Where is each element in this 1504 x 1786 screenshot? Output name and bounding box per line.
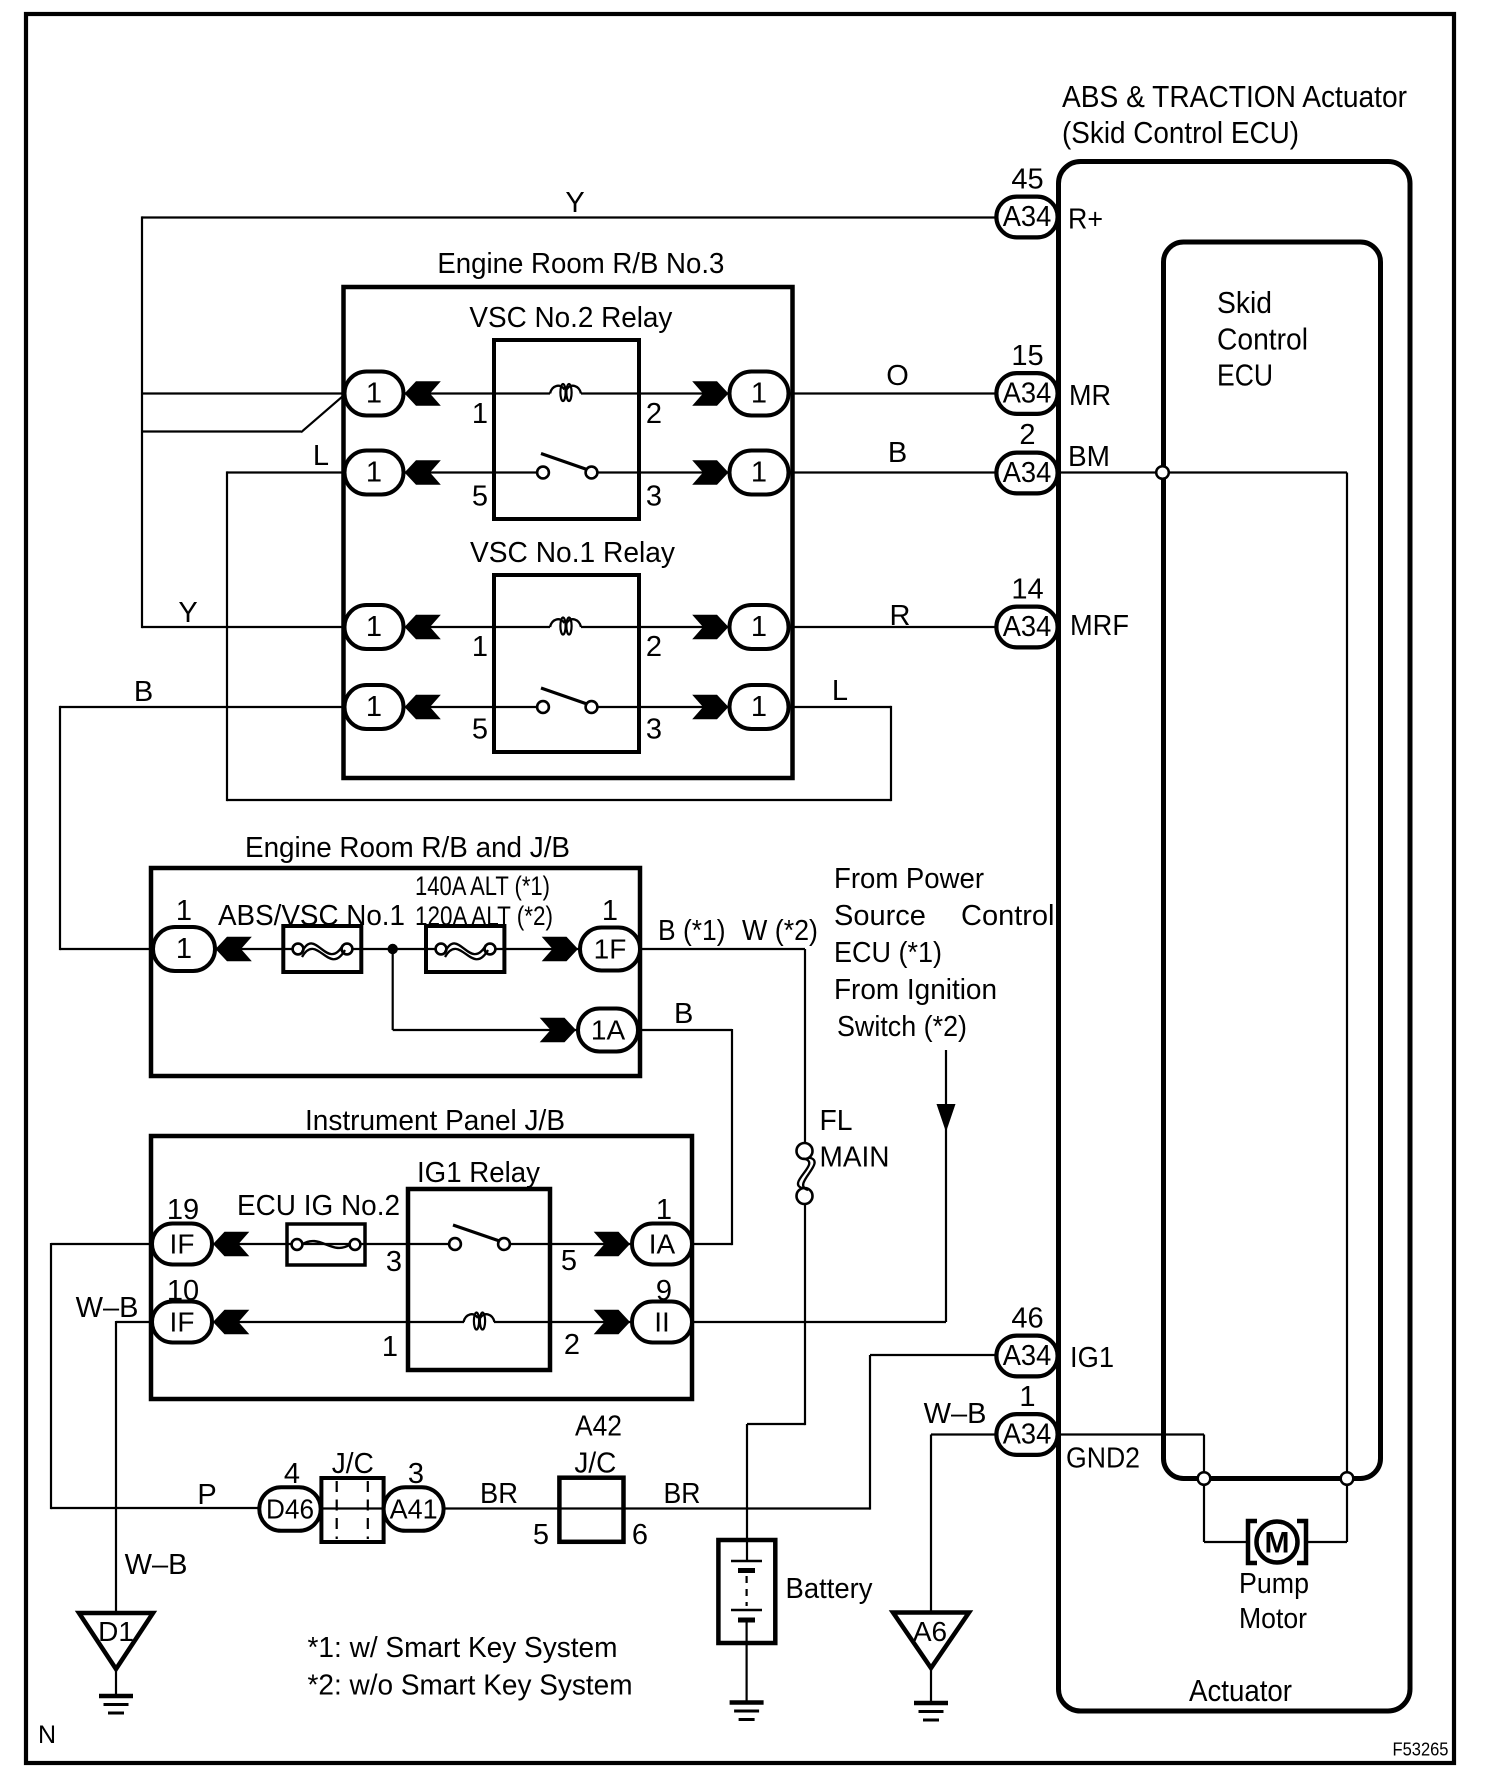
svg-text:1: 1 — [382, 1331, 398, 1363]
svg-text:IF: IF — [170, 1307, 195, 1338]
svg-text:W–B: W–B — [76, 1292, 139, 1324]
svg-text:2: 2 — [1019, 419, 1035, 451]
svg-text:1: 1 — [656, 1194, 672, 1226]
svg-text:ECU: ECU — [1217, 358, 1273, 393]
svg-text:BR: BR — [664, 1478, 701, 1510]
svg-text:2: 2 — [646, 631, 662, 663]
svg-text:5: 5 — [472, 714, 488, 746]
svg-text:Battery: Battery — [786, 1573, 873, 1605]
svg-text:19: 19 — [167, 1194, 199, 1226]
svg-text:A34: A34 — [1003, 1340, 1052, 1372]
svg-text:45: 45 — [1011, 164, 1043, 196]
svg-text:3: 3 — [646, 714, 662, 746]
svg-text:ECU IG No.2: ECU IG No.2 — [237, 1190, 400, 1222]
svg-text:D1: D1 — [98, 1616, 134, 1647]
svg-text:1: 1 — [366, 691, 382, 723]
svg-text:15: 15 — [1011, 340, 1043, 372]
svg-text:1: 1 — [176, 933, 192, 965]
svg-text:MRF: MRF — [1070, 610, 1129, 642]
svg-text:R: R — [890, 600, 911, 632]
svg-text:Motor: Motor — [1239, 1603, 1307, 1635]
svg-text:B (*1): B (*1) — [658, 915, 726, 947]
svg-text:W (*2): W (*2) — [742, 915, 818, 947]
svg-text:6: 6 — [632, 1519, 648, 1551]
svg-text:P: P — [197, 1479, 216, 1511]
svg-text:1: 1 — [472, 398, 488, 430]
svg-text:O: O — [886, 360, 909, 392]
svg-text:J/C: J/C — [332, 1448, 374, 1480]
svg-text:2: 2 — [646, 398, 662, 430]
svg-text:A34: A34 — [1003, 611, 1052, 643]
svg-text:1: 1 — [472, 631, 488, 663]
svg-text:IF: IF — [170, 1229, 195, 1260]
svg-text:Source: Source — [834, 900, 926, 932]
svg-text:Pump: Pump — [1239, 1568, 1309, 1600]
svg-text:W–B: W–B — [125, 1549, 188, 1581]
svg-text:D46: D46 — [266, 1494, 314, 1525]
svg-text:A34: A34 — [1003, 378, 1052, 410]
svg-text:Y: Y — [565, 187, 584, 219]
svg-text:3: 3 — [646, 481, 662, 513]
svg-text:1: 1 — [366, 611, 382, 643]
svg-text:Instrument Panel J/B: Instrument Panel J/B — [305, 1105, 565, 1137]
svg-text:5: 5 — [533, 1519, 549, 1551]
svg-text:A34: A34 — [1003, 1419, 1052, 1451]
svg-text:B: B — [888, 437, 907, 469]
svg-text:B: B — [134, 676, 153, 708]
svg-text:ABS & TRACTION Actuator: ABS & TRACTION Actuator — [1062, 79, 1407, 114]
svg-text:VSC No.1 Relay: VSC No.1 Relay — [470, 537, 675, 569]
svg-text:Switch (*2): Switch (*2) — [837, 1011, 967, 1043]
svg-text:R+: R+ — [1068, 204, 1103, 236]
svg-text:Control: Control — [1217, 322, 1308, 357]
svg-text:A34: A34 — [1003, 201, 1052, 233]
svg-text:Control: Control — [961, 900, 1055, 932]
svg-text:IA: IA — [649, 1229, 676, 1260]
svg-text:Engine Room R/B and J/B: Engine Room R/B and J/B — [245, 832, 570, 864]
svg-text:1A: 1A — [591, 1015, 626, 1046]
svg-text:1F: 1F — [594, 934, 627, 965]
svg-text:140A ALT (*1): 140A ALT (*1) — [415, 871, 550, 901]
svg-text:IG1: IG1 — [1070, 1342, 1114, 1374]
svg-text:B: B — [674, 998, 693, 1030]
svg-text:J/C: J/C — [574, 1448, 616, 1480]
svg-text:1: 1 — [366, 457, 382, 489]
svg-text:ECU (*1): ECU (*1) — [834, 937, 942, 969]
svg-text:1: 1 — [366, 378, 382, 410]
svg-text:ABS/VSC No.1: ABS/VSC No.1 — [218, 900, 405, 932]
svg-text:A6: A6 — [913, 1616, 947, 1647]
svg-text:*2: w/o Smart Key System: *2: w/o Smart Key System — [308, 1670, 633, 1702]
svg-text:IG1 Relay: IG1 Relay — [417, 1157, 540, 1189]
svg-text:From Power: From Power — [834, 863, 984, 895]
svg-text:L: L — [313, 440, 329, 472]
svg-text:II: II — [654, 1307, 670, 1338]
svg-text:5: 5 — [561, 1245, 577, 1277]
svg-text:1: 1 — [751, 691, 767, 723]
svg-text:GND2: GND2 — [1066, 1443, 1140, 1475]
svg-text:*1: w/ Smart Key System: *1: w/ Smart Key System — [308, 1632, 618, 1664]
svg-text:2: 2 — [564, 1329, 580, 1361]
svg-text:From Ignition: From Ignition — [834, 974, 997, 1006]
svg-text:A42: A42 — [575, 1411, 622, 1443]
svg-text:M: M — [1265, 1527, 1290, 1560]
svg-text:1: 1 — [751, 611, 767, 643]
svg-text:Y: Y — [178, 597, 197, 629]
svg-text:VSC No.2 Relay: VSC No.2 Relay — [469, 302, 672, 334]
svg-text:L: L — [832, 675, 848, 707]
svg-text:1: 1 — [751, 457, 767, 489]
svg-text:9: 9 — [656, 1275, 672, 1307]
svg-text:Skid: Skid — [1217, 285, 1272, 320]
svg-text:1: 1 — [751, 378, 767, 410]
svg-text:(Skid Control ECU): (Skid Control ECU) — [1062, 115, 1299, 150]
svg-text:10: 10 — [167, 1275, 199, 1307]
svg-text:W–B: W–B — [924, 1398, 987, 1430]
svg-text:BM: BM — [1068, 441, 1110, 473]
svg-text:120A ALT (*2): 120A ALT (*2) — [415, 901, 553, 931]
svg-text:14: 14 — [1011, 574, 1043, 606]
svg-text:BR: BR — [480, 1478, 518, 1510]
svg-text:1: 1 — [176, 895, 192, 927]
svg-text:Actuator: Actuator — [1189, 1673, 1292, 1708]
svg-text:Engine Room R/B No.3: Engine Room R/B No.3 — [437, 248, 724, 280]
svg-text:46: 46 — [1011, 1303, 1043, 1335]
svg-text:3: 3 — [386, 1246, 402, 1278]
svg-text:FL: FL — [820, 1105, 853, 1137]
svg-text:1: 1 — [602, 895, 618, 927]
svg-text:5: 5 — [472, 481, 488, 513]
svg-text:A34: A34 — [1003, 457, 1052, 489]
svg-text:F53265: F53265 — [1393, 1740, 1449, 1760]
svg-text:MAIN: MAIN — [820, 1142, 890, 1174]
svg-text:MR: MR — [1069, 380, 1111, 412]
svg-text:1: 1 — [1019, 1381, 1035, 1413]
svg-text:N: N — [38, 1721, 56, 1749]
svg-text:A41: A41 — [390, 1494, 438, 1525]
